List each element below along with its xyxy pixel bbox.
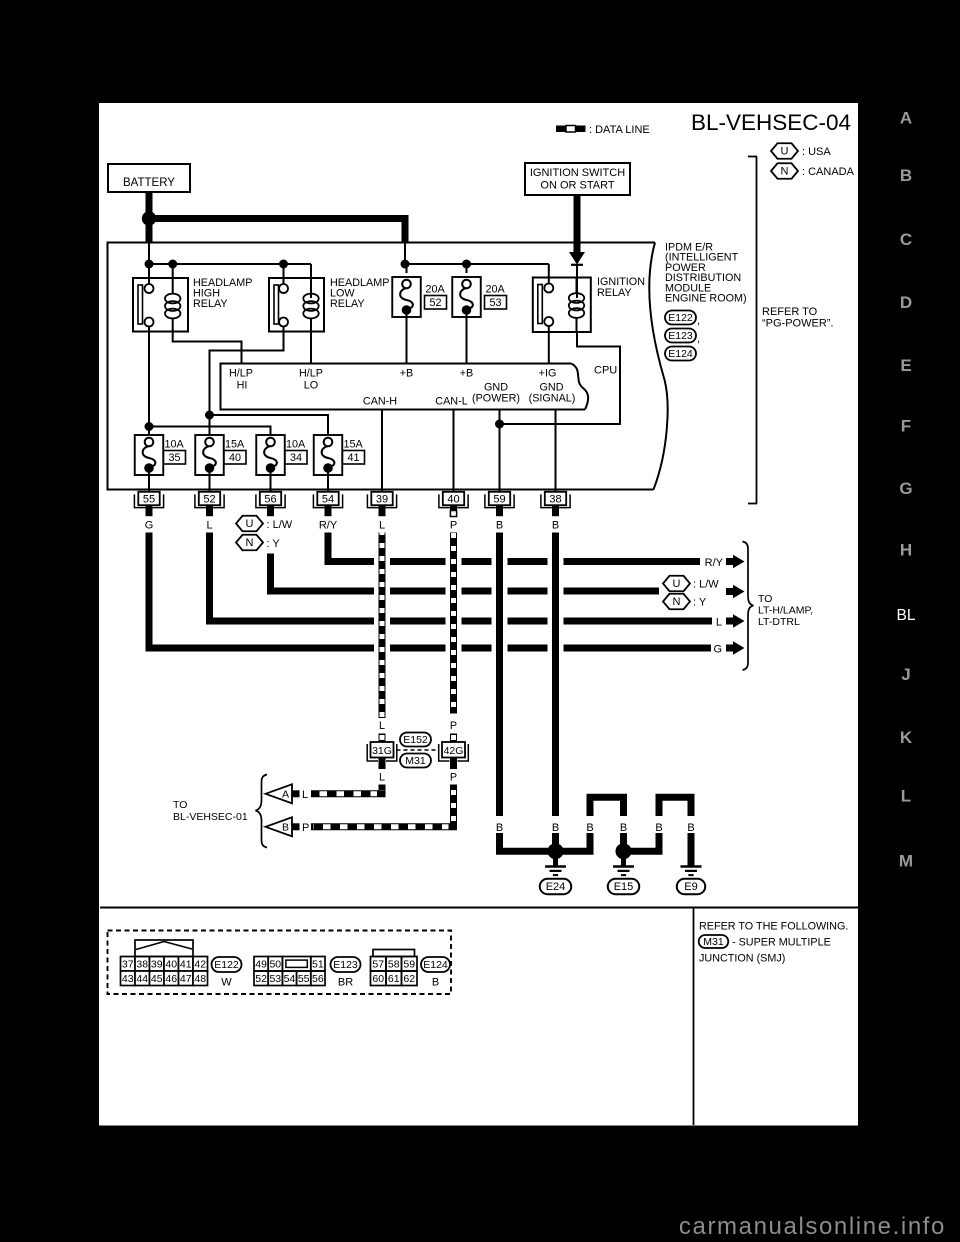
- svg-text:LO: LO: [304, 380, 318, 392]
- svg-text:E15: E15: [614, 881, 634, 893]
- svg-text:RELAY: RELAY: [330, 298, 365, 310]
- svg-text:34: 34: [290, 452, 302, 464]
- svg-text:40: 40: [229, 452, 241, 464]
- svg-text:LT-H/LAMP,: LT-H/LAMP,: [758, 605, 813, 617]
- svg-text:P: P: [450, 520, 457, 532]
- svg-text:55: 55: [143, 494, 155, 506]
- svg-text:45: 45: [151, 973, 163, 985]
- svg-text:56: 56: [312, 973, 324, 985]
- svg-text:L: L: [379, 520, 385, 532]
- svg-text:B: B: [687, 822, 694, 834]
- svg-text:U: U: [781, 146, 789, 158]
- svg-text:BL-VEHSEC-01: BL-VEHSEC-01: [173, 811, 248, 823]
- svg-text:M: M: [899, 852, 913, 871]
- svg-text:59: 59: [493, 494, 505, 506]
- svg-text:59: 59: [403, 959, 415, 971]
- svg-text:R/Y: R/Y: [319, 520, 338, 532]
- svg-text:P: P: [450, 772, 457, 784]
- svg-text:REFER TO: REFER TO: [762, 306, 818, 318]
- svg-text:54: 54: [284, 973, 296, 985]
- svg-text:CAN-H: CAN-H: [363, 396, 397, 408]
- svg-text:TO: TO: [173, 799, 187, 811]
- svg-text:40: 40: [447, 494, 459, 506]
- svg-text:D: D: [900, 293, 912, 312]
- svg-text:51: 51: [312, 959, 324, 971]
- svg-text:+B: +B: [460, 368, 474, 380]
- svg-text:52: 52: [203, 494, 215, 506]
- svg-text:60: 60: [372, 973, 384, 985]
- svg-text:N: N: [781, 166, 789, 178]
- svg-text:37: 37: [122, 959, 134, 971]
- svg-text:: L/W: : L/W: [693, 579, 719, 591]
- svg-text:BR: BR: [338, 977, 353, 989]
- svg-text:58: 58: [388, 959, 400, 971]
- svg-text:A: A: [282, 789, 289, 801]
- svg-text:+IG: +IG: [539, 368, 557, 380]
- svg-text:B: B: [282, 822, 289, 834]
- svg-text:49: 49: [255, 959, 267, 971]
- svg-text:U: U: [673, 578, 681, 590]
- svg-text:E: E: [900, 356, 911, 375]
- svg-text:G: G: [899, 479, 912, 498]
- svg-text:BL-VEHSEC-04: BL-VEHSEC-04: [691, 110, 851, 135]
- svg-text:M31: M31: [703, 936, 724, 948]
- svg-text:B: B: [655, 822, 662, 834]
- svg-text:F: F: [901, 417, 911, 436]
- svg-text:IGNITION SWITCH: IGNITION SWITCH: [530, 167, 625, 179]
- svg-text:47: 47: [180, 973, 192, 985]
- svg-text:41: 41: [180, 959, 192, 971]
- svg-text:L: L: [379, 720, 385, 732]
- svg-text:B: B: [496, 520, 503, 532]
- svg-text:40: 40: [165, 959, 177, 971]
- svg-text:53: 53: [489, 297, 501, 309]
- svg-text:35: 35: [168, 452, 180, 464]
- svg-text:W: W: [221, 977, 232, 989]
- svg-text:N: N: [673, 596, 681, 608]
- svg-text:62: 62: [403, 973, 415, 985]
- svg-text:: CANADA: : CANADA: [802, 166, 855, 178]
- svg-text:TO: TO: [758, 593, 772, 605]
- svg-text:39: 39: [151, 959, 163, 971]
- svg-text:E152: E152: [403, 734, 428, 746]
- svg-text:+B: +B: [400, 368, 414, 380]
- svg-text:RELAY: RELAY: [597, 287, 632, 299]
- svg-text:B: B: [552, 520, 559, 532]
- svg-text:B: B: [900, 166, 912, 185]
- svg-text:: Y: : Y: [267, 538, 281, 550]
- svg-text:carmanualsonline.info: carmanualsonline.info: [679, 1213, 946, 1240]
- svg-text:H/LP: H/LP: [299, 368, 323, 380]
- svg-text:E123: E123: [333, 959, 358, 971]
- svg-text:HI: HI: [237, 380, 248, 392]
- svg-text:E122: E122: [214, 959, 239, 971]
- svg-text:57: 57: [372, 959, 384, 971]
- svg-text:G: G: [145, 520, 154, 532]
- svg-text:15A: 15A: [225, 439, 245, 451]
- svg-text:52: 52: [429, 297, 441, 309]
- svg-text:K: K: [900, 728, 913, 747]
- svg-text:JUNCTION (SMJ): JUNCTION (SMJ): [699, 953, 785, 965]
- svg-text:B: B: [496, 822, 503, 834]
- svg-text:BATTERY: BATTERY: [123, 177, 175, 189]
- svg-text:54: 54: [322, 494, 334, 506]
- svg-text:46: 46: [165, 973, 177, 985]
- svg-text:H: H: [900, 541, 912, 560]
- svg-text:: USA: : USA: [802, 146, 831, 158]
- svg-text:“PG-POWER”.: “PG-POWER”.: [762, 318, 834, 330]
- svg-text:: Y: : Y: [693, 597, 707, 609]
- svg-text:,: ,: [697, 315, 700, 327]
- svg-text:E9: E9: [684, 881, 697, 893]
- svg-text:H/LP: H/LP: [229, 368, 253, 380]
- svg-text:(POWER): (POWER): [472, 393, 520, 405]
- svg-text:52: 52: [255, 973, 267, 985]
- svg-text:55: 55: [298, 973, 310, 985]
- svg-text:B: B: [620, 822, 627, 834]
- svg-text:: L/W: : L/W: [267, 519, 293, 531]
- svg-text:20A: 20A: [486, 284, 506, 296]
- svg-text:61: 61: [388, 973, 400, 985]
- svg-text:48: 48: [194, 973, 206, 985]
- svg-text:39: 39: [376, 494, 388, 506]
- svg-text:31G: 31G: [372, 745, 392, 757]
- svg-text:E123: E123: [668, 330, 693, 342]
- svg-text:42: 42: [194, 959, 206, 971]
- svg-text:P: P: [450, 720, 457, 732]
- svg-text:U: U: [246, 518, 254, 530]
- svg-text:L: L: [206, 520, 212, 532]
- svg-text:: DATA LINE: : DATA LINE: [589, 124, 650, 136]
- svg-text:E124: E124: [423, 959, 448, 971]
- svg-text:RELAY: RELAY: [193, 298, 228, 310]
- svg-text:N: N: [246, 537, 254, 549]
- svg-text:L: L: [379, 772, 385, 784]
- svg-text:43: 43: [122, 973, 134, 985]
- svg-text:B: B: [432, 977, 439, 989]
- svg-text:R/Y: R/Y: [705, 557, 724, 569]
- svg-text:L: L: [901, 787, 911, 806]
- svg-text:38: 38: [136, 959, 148, 971]
- svg-text:E124: E124: [668, 348, 693, 360]
- svg-text:CAN-L: CAN-L: [435, 396, 467, 408]
- svg-text:ENGINE ROOM): ENGINE ROOM): [665, 293, 747, 305]
- svg-text:G: G: [713, 644, 722, 656]
- svg-text:38: 38: [549, 494, 561, 506]
- svg-text:,: ,: [697, 333, 700, 345]
- svg-text:L: L: [716, 617, 722, 629]
- svg-text:L: L: [302, 789, 308, 801]
- svg-text:J: J: [901, 665, 910, 684]
- svg-text:44: 44: [136, 973, 148, 985]
- svg-text:(SIGNAL): (SIGNAL): [529, 393, 576, 405]
- svg-text:LT-DTRL: LT-DTRL: [758, 616, 800, 628]
- svg-text:50: 50: [269, 959, 281, 971]
- svg-text:CPU: CPU: [594, 365, 617, 377]
- svg-text:E122: E122: [668, 312, 693, 324]
- svg-text:53: 53: [269, 973, 281, 985]
- svg-text:20A: 20A: [426, 284, 446, 296]
- svg-text:E24: E24: [546, 881, 566, 893]
- svg-text:B: B: [586, 822, 593, 834]
- svg-text:REFER TO THE FOLLOWING.: REFER TO THE FOLLOWING.: [699, 921, 848, 933]
- svg-text:41: 41: [347, 452, 359, 464]
- svg-text:42G: 42G: [444, 745, 464, 757]
- svg-text:BL: BL: [897, 607, 916, 624]
- svg-text:ON OR START: ON OR START: [540, 180, 614, 192]
- svg-text:A: A: [900, 109, 912, 128]
- svg-text:15A: 15A: [344, 439, 364, 451]
- svg-text:M31: M31: [405, 755, 426, 767]
- svg-text:10A: 10A: [286, 439, 306, 451]
- svg-text:C: C: [900, 230, 912, 249]
- svg-text:B: B: [552, 822, 559, 834]
- svg-text:- SUPER MULTIPLE: - SUPER MULTIPLE: [732, 937, 831, 949]
- svg-text:P: P: [302, 822, 309, 834]
- svg-text:10A: 10A: [165, 439, 185, 451]
- svg-text:56: 56: [264, 494, 276, 506]
